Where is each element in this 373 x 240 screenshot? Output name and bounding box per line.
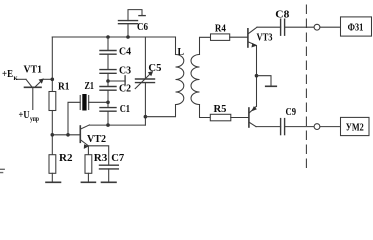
wire left column top (bus corner down to R1) (51, 37, 53, 92)
wire C9 to terminal (285, 126, 315, 128)
capacitor C2 (100, 87, 116, 91)
svg-text:R2: R2 (59, 152, 73, 164)
wire lower VT3 to C9 (256, 126, 281, 128)
ground under R3 (81, 181, 95, 183)
variable capacitor C5 (135, 37, 154, 125)
svg-text:C6: C6 (137, 21, 148, 33)
ground mid (266, 85, 277, 87)
resistor R5 (210, 114, 231, 121)
capacitor C1 (100, 108, 116, 112)
svg-text:VT1: VT1 (24, 64, 43, 76)
svg-text:C3: C3 (119, 64, 131, 76)
node bus-capstack (106, 35, 110, 39)
node C5 bottom junction (144, 115, 148, 119)
node bus-C6 (126, 35, 130, 39)
inductor L primary coil (176, 37, 184, 105)
wire VT3 emitter vertical (256, 46, 258, 107)
wire C7 to ground (108, 169, 110, 182)
capacitor C4 (100, 51, 116, 55)
wire R3 to ground (87, 173, 89, 182)
capacitor C7 (100, 165, 119, 169)
svg-text:УМ2: УМ2 (346, 122, 364, 133)
svg-text:+E: +E (2, 68, 13, 80)
block UM2 (341, 117, 370, 135)
node divider tap (106, 79, 110, 83)
ground under C7 (102, 181, 117, 183)
svg-text:VT2: VT2 (87, 133, 106, 145)
svg-text:упр: упр (30, 115, 39, 123)
svg-text:C8: C8 (275, 9, 290, 21)
wire +Ek to VT1 collector (18, 78, 27, 80)
resistor R2 (49, 155, 56, 174)
tap stub end bar (124, 76, 126, 85)
svg-text:R3: R3 (94, 152, 108, 164)
wire C5 junction to transformer bottom (145, 105, 175, 117)
wire VT3 collector to C8 (257, 26, 281, 28)
label +Uupr (19, 109, 40, 123)
resistor R1 (49, 92, 56, 111)
wire Z1 left lead (68, 102, 80, 135)
wire VT1 emitter to node (43, 78, 52, 80)
wire Z1 right lead (89, 101, 108, 103)
wire VT2 emitter node (88, 146, 108, 165)
crystal Z1 (80, 94, 89, 111)
node mid ground junction (255, 74, 259, 78)
label +Ek (2, 68, 19, 82)
transformer secondary coil (191, 37, 211, 117)
wire VT2 collector line (89, 124, 145, 126)
svg-text:Z1: Z1 (85, 81, 95, 92)
resistor R3 (85, 155, 92, 174)
capacitor stack column wires (107, 37, 109, 125)
svg-text:C4: C4 (119, 45, 131, 57)
wire R2 to ground (51, 173, 53, 182)
svg-text:C1: C1 (120, 103, 130, 115)
svg-text:R5: R5 (214, 103, 227, 115)
wire C8 to terminal (285, 26, 315, 28)
svg-text:R1: R1 (58, 81, 70, 93)
svg-text:C2: C2 (119, 83, 131, 95)
svg-text:R4: R4 (215, 23, 226, 35)
transistor VT3 lower (249, 106, 257, 127)
wire R4 to VT3 base (230, 36, 248, 38)
node base tap junction (51, 133, 55, 137)
block F31 (341, 17, 372, 36)
transistor VT1 (25, 79, 44, 110)
svg-text:VT3: VT3 (257, 32, 273, 44)
capacitor C8 (281, 19, 285, 35)
svg-text:Ф31: Ф31 (348, 22, 364, 33)
svg-text:+U: +U (19, 109, 30, 121)
svg-text:C7: C7 (111, 152, 124, 164)
node VT1-R1 junction (51, 78, 55, 82)
terminal circle top (314, 24, 320, 30)
node Z1 to cap stack (106, 101, 110, 105)
svg-text:L: L (178, 46, 185, 58)
node Z1 tap on base wire (66, 133, 70, 137)
svg-text:C9: C9 (286, 106, 297, 118)
node collector to cap stack (106, 123, 110, 127)
resistor R4 (211, 34, 230, 41)
wire terminal to F31 box (320, 26, 341, 28)
svg-text:к: к (14, 74, 19, 82)
wire base line to VT2 (52, 134, 80, 136)
dashed boundary line (305, 5, 307, 170)
ground under R2 (46, 181, 61, 183)
capacitor C3 (100, 70, 116, 74)
wire top bus (52, 36, 175, 38)
capacitor C6 (119, 10, 146, 37)
terminal circle bottom (314, 124, 320, 130)
transistor VT2 (80, 125, 89, 149)
wire tap stub (108, 80, 125, 82)
wire terminal to UM2 box (320, 126, 341, 128)
wire to mid ground (257, 76, 272, 86)
transistor VT3 upper (248, 27, 257, 47)
wire R1 to R2 (51, 111, 53, 155)
wire R5 to lower VT3 base (231, 117, 249, 119)
svg-text:C5: C5 (148, 62, 161, 74)
chassis mark bottom left (0, 169, 4, 172)
capacitor C9 (281, 119, 285, 135)
